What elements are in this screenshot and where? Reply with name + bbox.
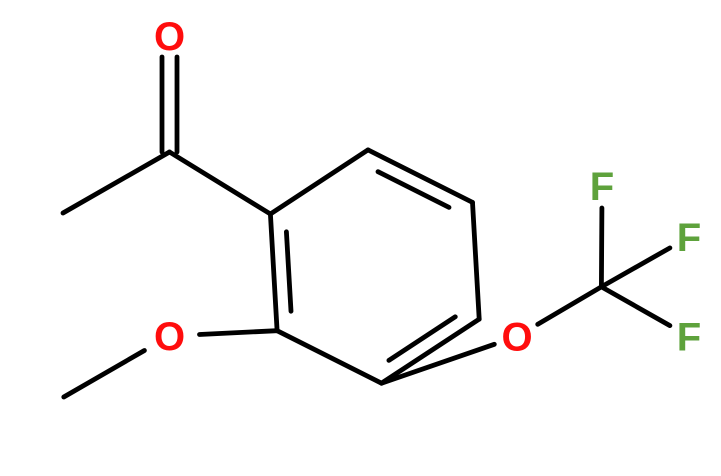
bond C7-C1: [170, 152, 271, 214]
aromatic inner line C5=C6: [378, 172, 449, 208]
bond C2-O2 (methoxy): [200, 331, 278, 335]
svg-text:O: O: [154, 15, 185, 59]
bond O2-CH3(M2): [64, 351, 145, 398]
ring bond C5-C6: [368, 150, 473, 203]
bond C7=O1 (left line of carbonyl double bond): [160, 57, 165, 152]
bond C8-F1: [599, 208, 604, 287]
ring bond C3-C4: [382, 319, 480, 383]
bond CH3(M1)-C7: [63, 152, 170, 213]
bond C8-F2: [601, 248, 670, 287]
ring bond C1-C2: [270, 214, 277, 331]
svg-text:F: F: [677, 316, 701, 360]
ring bond C6-C1: [270, 150, 368, 214]
svg-text:F: F: [590, 165, 614, 209]
aromatic inner line C1=C2: [286, 232, 291, 311]
aromatic inner line C3=C4: [389, 317, 455, 361]
svg-text:O: O: [501, 316, 532, 360]
bond C3-O3: [382, 344, 495, 383]
bond O3-C8: [538, 287, 602, 325]
bond C8-F3: [601, 287, 670, 326]
ring bond C4-C5: [473, 202, 480, 319]
svg-text:O: O: [154, 315, 185, 359]
svg-text:F: F: [677, 216, 701, 260]
ring bond C2-C3: [277, 331, 381, 384]
bond C7=O1 (right line of carbonyl double bond): [175, 57, 180, 152]
